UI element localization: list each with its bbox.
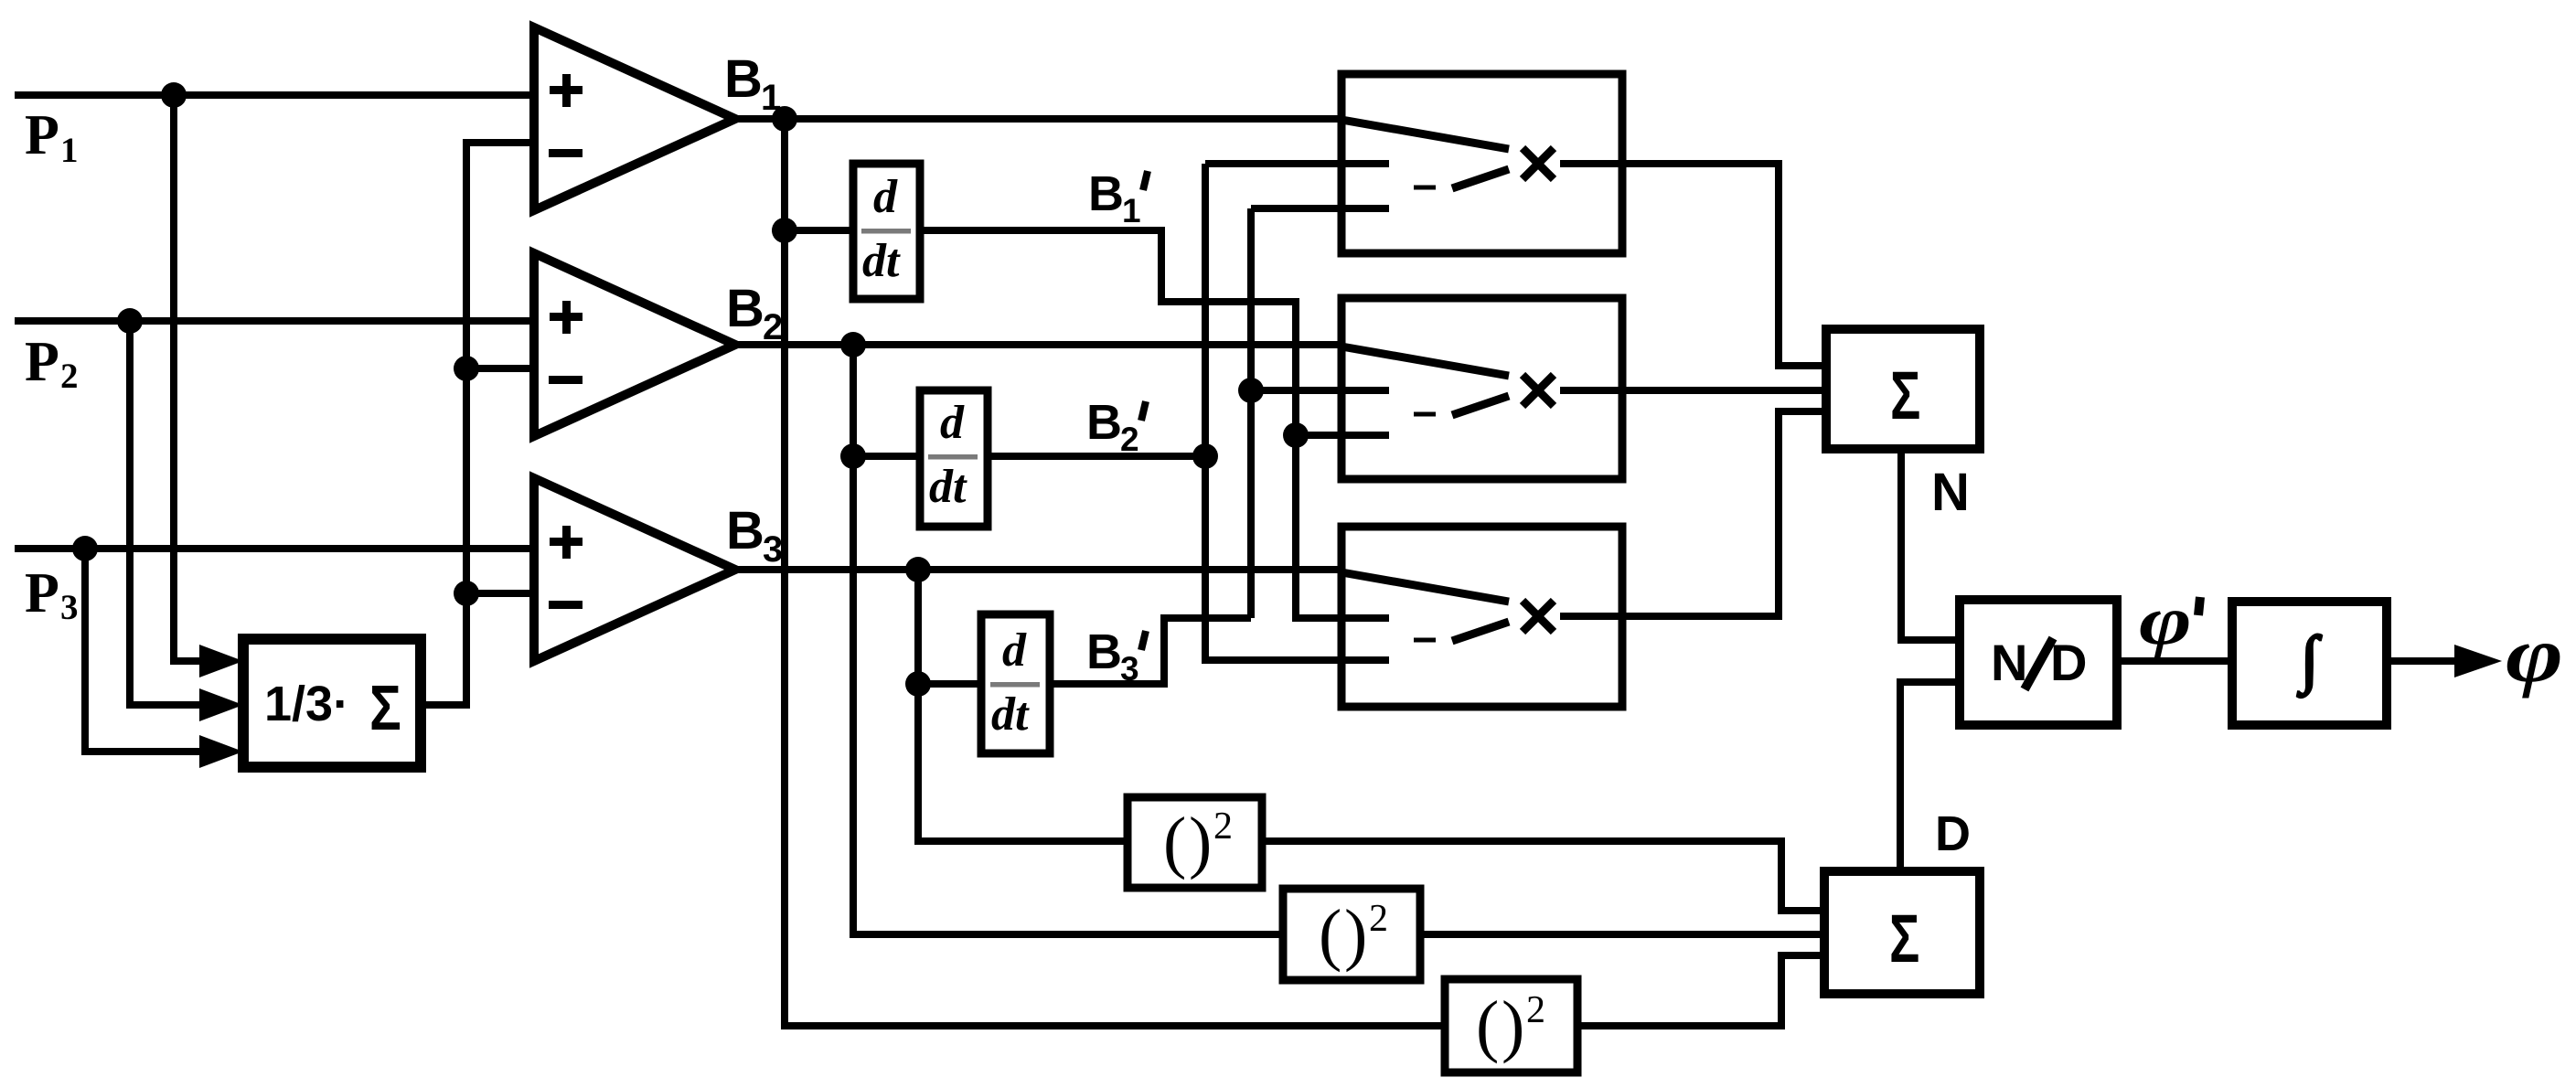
svg-text:d: d [940, 397, 965, 449]
svg-text:(: ( [1163, 804, 1186, 880]
svg-text:Σ: Σ [1889, 901, 1919, 976]
svg-text:): ) [1502, 987, 1524, 1064]
svg-text:2: 2 [763, 307, 783, 347]
svg-text:2: 2 [60, 357, 79, 396]
svg-text:d: d [1002, 624, 1027, 677]
svg-text:1/3·: 1/3· [264, 677, 349, 731]
svg-text:B: B [1086, 624, 1122, 679]
svg-text:P: P [25, 562, 59, 624]
svg-text:B: B [726, 279, 764, 338]
svg-text:(: ( [1476, 987, 1499, 1064]
svg-text:(: ( [1319, 896, 1341, 973]
svg-text:dt: dt [991, 688, 1030, 741]
svg-text:D: D [2050, 634, 2087, 691]
svg-text:2: 2 [1526, 989, 1545, 1031]
svg-text:B: B [724, 49, 763, 109]
svg-text:2: 2 [1369, 898, 1388, 940]
svg-text:3: 3 [60, 588, 79, 627]
svg-text:1: 1 [761, 78, 781, 118]
svg-text:N: N [1931, 463, 1970, 522]
svg-text:dt: dt [862, 235, 901, 287]
svg-text:2: 2 [1120, 421, 1139, 458]
svg-text:2: 2 [1213, 805, 1233, 848]
svg-text:d: d [873, 171, 898, 223]
svg-text:B: B [1086, 395, 1122, 450]
svg-text:): ) [1344, 896, 1367, 973]
svg-text:dt: dt [929, 461, 967, 513]
svg-text:B: B [1088, 166, 1124, 221]
svg-text:): ) [1189, 804, 1212, 880]
svg-text:Σ: Σ [1890, 357, 1920, 433]
svg-text:1: 1 [60, 131, 79, 170]
svg-text:3: 3 [1120, 650, 1139, 688]
svg-text:B: B [726, 501, 764, 560]
svg-text:P: P [25, 331, 59, 393]
svg-text:N: N [1991, 634, 2027, 691]
svg-text:Σ: Σ [369, 672, 401, 743]
svg-text:D: D [1935, 806, 1971, 861]
svg-text:3: 3 [763, 529, 783, 570]
svg-text:∫: ∫ [2297, 624, 2322, 698]
svg-text:φ: φ [2506, 612, 2563, 699]
svg-text:1: 1 [1122, 192, 1141, 229]
svg-text:φ: φ [2139, 582, 2192, 660]
svg-text:P: P [25, 104, 59, 166]
